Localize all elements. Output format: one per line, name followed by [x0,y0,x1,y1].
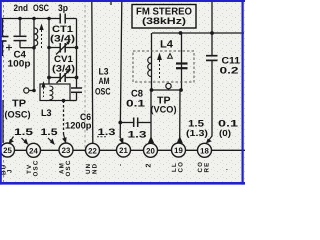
svg-text:L3: L3 [99,67,109,77]
svg-text:3p: 3p [58,3,68,13]
svg-text:1.3: 1.3 [98,126,116,137]
svg-text:CT1: CT1 [52,24,73,34]
svg-text:0.1: 0.1 [126,99,146,110]
svg-text:18: 18 [200,146,209,155]
svg-text:1.3: 1.3 [128,129,147,140]
svg-text:23: 23 [62,146,71,155]
svg-text:1.5: 1.5 [41,126,58,137]
svg-text:2: 2 [146,164,153,168]
svg-text:-: - [117,164,124,166]
svg-text:22: 22 [88,146,97,155]
svg-text:CV1: CV1 [54,54,73,64]
svg-text:19: 19 [174,146,183,155]
svg-text:OSC: OSC [95,87,111,97]
svg-text:(3/4): (3/4) [52,64,75,74]
svg-text:1.5: 1.5 [188,118,204,129]
svg-text:(OSC): (OSC) [5,110,31,120]
svg-text:TP: TP [12,99,26,110]
svg-text:.: . [226,165,228,172]
svg-text:0.2: 0.2 [220,65,239,76]
svg-text:100p: 100p [8,59,31,69]
svg-text:(1.3): (1.3) [186,128,208,138]
svg-text:(0): (0) [219,128,231,138]
svg-text:J: J [7,168,14,173]
svg-text:OSC: OSC [65,159,72,176]
svg-text:25: 25 [3,146,12,155]
svg-text:20: 20 [146,146,155,155]
svg-text:OSC: OSC [33,159,40,176]
svg-text:1200p: 1200p [65,121,92,131]
svg-text:ND: ND [92,163,99,174]
svg-text:(38kHz): (38kHz) [142,15,186,26]
svg-text:0.1: 0.1 [218,118,238,129]
svg-text:(VCO): (VCO) [151,105,177,115]
svg-text:24: 24 [29,146,38,155]
svg-text:21: 21 [119,146,128,155]
svg-text:RE: RE [204,162,211,173]
svg-text:2nd: 2nd [14,3,29,13]
svg-text:(3/4): (3/4) [50,34,75,44]
svg-text:L4: L4 [160,39,173,51]
svg-text:AM: AM [99,76,110,86]
svg-text:OSC: OSC [33,3,49,13]
svg-text:1.5: 1.5 [14,126,33,137]
svg-text:CO: CO [178,161,185,173]
svg-text:L3: L3 [41,108,52,119]
